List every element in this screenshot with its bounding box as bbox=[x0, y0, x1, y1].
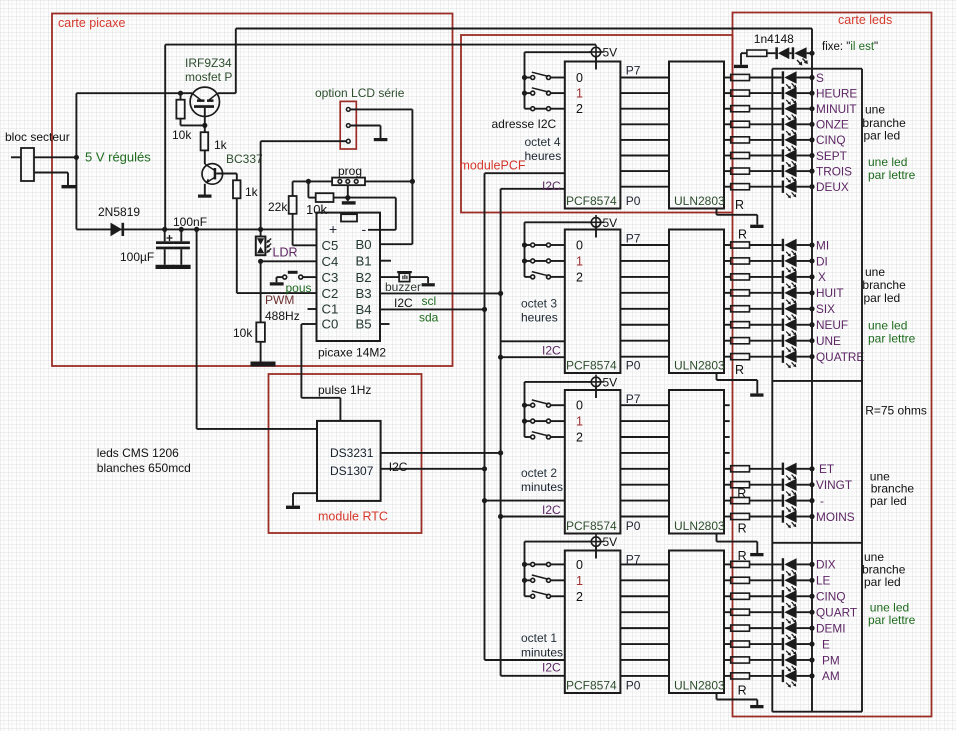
svg-text:P7: P7 bbox=[626, 392, 641, 406]
wire P0 PCF to ULN (module 1) bbox=[620, 186, 669, 188]
svg-text:B0: B0 bbox=[356, 237, 372, 252]
svg-text:minutes: minutes bbox=[521, 646, 563, 660]
wire P4 PCF to ULN (module 1) bbox=[620, 123, 669, 125]
svg-text:MOINS: MOINS bbox=[816, 510, 855, 524]
wire P2 PCF to ULN (module 2) bbox=[620, 324, 669, 326]
node led rail NEUF bbox=[809, 322, 814, 327]
svg-text:1: 1 bbox=[576, 574, 583, 588]
LED SIX bbox=[782, 303, 784, 315]
wire P6 PCF to ULN (module 1) bbox=[620, 92, 669, 94]
svg-text:heures: heures bbox=[521, 311, 558, 325]
svg-text:P0: P0 bbox=[626, 359, 641, 373]
svg-text:5 V régulés: 5 V régulés bbox=[85, 150, 151, 165]
svg-text:-: - bbox=[362, 221, 367, 237]
wire BC337 emitter to ground bbox=[204, 184, 206, 195]
svg-text:CINQ: CINQ bbox=[816, 133, 846, 147]
resistor 1k (base) bbox=[233, 180, 241, 198]
LED PM bbox=[782, 654, 784, 666]
svg-text:ULN2803: ULN2803 bbox=[674, 359, 725, 373]
LED AM bbox=[782, 670, 784, 682]
svg-text:2: 2 bbox=[576, 431, 583, 445]
bloc secteur connector bbox=[11, 156, 21, 158]
wire P3 PCF to ULN (module 2) bbox=[620, 308, 669, 310]
node led rail SIX bbox=[809, 306, 814, 311]
node LDR top bbox=[258, 227, 263, 232]
svg-text:IRF9Z34: IRF9Z34 bbox=[185, 56, 232, 70]
ground (100nF) bbox=[173, 265, 191, 269]
wire P6 PCF to ULN (module 4) bbox=[620, 579, 669, 581]
svg-text:P7: P7 bbox=[626, 232, 641, 246]
svg-text:HEURE: HEURE bbox=[816, 86, 857, 100]
svg-text:B4: B4 bbox=[356, 302, 372, 317]
svg-text:adresse I2C: adresse I2C bbox=[492, 117, 557, 131]
wire C0 to RTC bbox=[301, 323, 316, 325]
resistor R (module 2 HUIT) bbox=[724, 292, 731, 294]
node RTC supply bbox=[194, 227, 199, 232]
wire B0 bbox=[380, 243, 412, 245]
svg-text:carte picaxe: carte picaxe bbox=[58, 16, 125, 30]
node led rail DEMI bbox=[809, 626, 814, 631]
carte picaxe frame bbox=[52, 14, 453, 367]
resistor R (module 4 DIX) bbox=[724, 563, 731, 565]
IC ULN2803 (module 2) bbox=[669, 230, 724, 374]
I2C bus1 (sda) bbox=[484, 173, 486, 660]
svg-text:QUATRE: QUATRE bbox=[816, 350, 864, 364]
IC PCF8574 (module 1) bbox=[565, 62, 621, 209]
svg-text:R: R bbox=[738, 522, 747, 536]
svg-text:0: 0 bbox=[576, 71, 583, 85]
svg-text:S: S bbox=[816, 71, 824, 85]
wire P3 PCF to ULN (module 3) bbox=[620, 468, 669, 470]
svg-text:R: R bbox=[738, 684, 747, 698]
svg-text:LE: LE bbox=[816, 574, 831, 588]
LED VINGT bbox=[782, 479, 784, 491]
node led rail UNE bbox=[809, 338, 814, 343]
address switch 0 (module 1) bbox=[525, 77, 531, 79]
LED QUART bbox=[782, 606, 784, 618]
photoresistor LDR bbox=[260, 141, 262, 236]
svg-text:CINQ: CINQ bbox=[816, 590, 846, 604]
resistor R (module 1 CINQ) bbox=[724, 139, 731, 141]
svg-text:I2C: I2C bbox=[389, 460, 408, 474]
resistor R (module 1 S) bbox=[724, 77, 731, 79]
svg-text:par lettre: par lettre bbox=[868, 168, 916, 182]
svg-text:I2C: I2C bbox=[542, 179, 561, 193]
svg-text:R: R bbox=[737, 487, 746, 501]
svg-text:QUART: QUART bbox=[816, 605, 857, 619]
svg-text:DIX: DIX bbox=[816, 558, 836, 572]
resistor R (module 2 SIX) bbox=[724, 308, 731, 310]
svg-text:picaxe 14M2: picaxe 14M2 bbox=[318, 346, 386, 360]
address switch 0 (module 2) bbox=[525, 244, 531, 246]
node led rail - bbox=[809, 498, 814, 503]
svg-text:buzzer: buzzer bbox=[385, 280, 421, 294]
svg-text:option LCD série: option LCD série bbox=[315, 86, 405, 100]
wire I2C scl in (module 3) bbox=[485, 500, 565, 502]
resistor 22k bbox=[292, 181, 294, 196]
wire prog to B0 riser bbox=[365, 180, 412, 182]
resistor R (module 3 ET) bbox=[724, 468, 731, 470]
resistor R (module 1 HEURE) bbox=[724, 92, 731, 94]
ground (buzzer) bbox=[422, 283, 435, 286]
wire +5V rail (after diode) bbox=[76, 228, 316, 230]
svg-text:une led: une led bbox=[868, 319, 907, 333]
IC U1 picaxe 14M2 bbox=[317, 213, 381, 341]
svg-text:X: X bbox=[818, 270, 826, 284]
wire prog center to ground bbox=[347, 185, 349, 201]
svg-text:DS3231: DS3231 bbox=[330, 446, 374, 460]
IC PCF8574 (module 4) bbox=[565, 551, 621, 694]
wire BC337 base bbox=[216, 173, 237, 175]
svg-text:1k: 1k bbox=[214, 138, 228, 152]
5V bus to address switches (module 2) bbox=[525, 221, 592, 223]
carte leds frame bbox=[733, 13, 932, 717]
wire +5V to modulePCF (upper) bbox=[164, 45, 166, 230]
wire I2C sda in (module 1) bbox=[501, 188, 565, 190]
svg-text:prog: prog bbox=[338, 164, 362, 178]
svg-text:I2C: I2C bbox=[542, 661, 561, 675]
ground (100uF) bbox=[156, 265, 174, 269]
svg-text:une led: une led bbox=[868, 155, 907, 169]
svg-text:LDR: LDR bbox=[273, 246, 298, 260]
LED S bbox=[782, 71, 784, 83]
svg-text:C4: C4 bbox=[322, 254, 339, 269]
svg-text:DI: DI bbox=[816, 254, 828, 268]
wire bloc secteur to ground bbox=[34, 172, 68, 174]
wire P1 PCF to ULN (module 1) bbox=[620, 170, 669, 172]
svg-text:bloc secteur: bloc secteur bbox=[5, 130, 70, 144]
svg-text:5V: 5V bbox=[603, 375, 618, 389]
svg-text:2: 2 bbox=[576, 102, 583, 116]
node 5V regules bbox=[74, 155, 79, 160]
svg-text:0: 0 bbox=[576, 558, 583, 572]
svg-text:2: 2 bbox=[576, 590, 583, 604]
svg-text:5V: 5V bbox=[603, 216, 618, 230]
ground (BC337) bbox=[198, 195, 212, 198]
svg-text:C5: C5 bbox=[322, 238, 339, 253]
wire I2C scl in (module 1) bbox=[485, 172, 565, 174]
wire mosfet drain up bbox=[218, 92, 236, 94]
LED X bbox=[782, 271, 784, 283]
node led rail DIX bbox=[809, 562, 814, 567]
svg-text:par led: par led bbox=[864, 575, 901, 589]
resistor R (module 4 AM) bbox=[724, 675, 731, 677]
svg-text:sda: sda bbox=[419, 311, 439, 325]
wire ULN output stub (module 3 row 2) bbox=[724, 436, 730, 438]
wire P5 PCF to ULN (module 3) bbox=[620, 436, 669, 438]
wire +5V vertical bbox=[75, 93, 77, 229]
svg-text:ULN2803: ULN2803 bbox=[674, 194, 725, 208]
node led rail E bbox=[809, 641, 814, 646]
resistor R (module 4 CINQ) bbox=[724, 595, 731, 597]
wire RTC ground bbox=[293, 492, 317, 494]
wire P0 PCF to ULN (module 4) bbox=[620, 675, 669, 677]
LED CINQ bbox=[782, 134, 784, 146]
svg-text:par led: par led bbox=[864, 129, 901, 143]
svg-text:ULN2803: ULN2803 bbox=[674, 679, 725, 693]
wire P2 PCF to ULN (module 1) bbox=[620, 155, 669, 157]
svg-text:octet 2: octet 2 bbox=[521, 466, 557, 480]
svg-text:C0: C0 bbox=[322, 317, 339, 332]
wire ULN2803 ground (module 2) bbox=[716, 373, 718, 380]
resistor R (module 1 DEUX) bbox=[724, 186, 731, 188]
svg-text:SEPT: SEPT bbox=[816, 149, 847, 163]
node led rail QUART bbox=[809, 610, 814, 615]
address switch 2 (module 1) bbox=[525, 108, 531, 110]
svg-text:heures: heures bbox=[525, 149, 562, 163]
svg-text:10k: 10k bbox=[233, 326, 253, 340]
wire ULN2803 ground (module 4) bbox=[716, 693, 718, 700]
resistor R (module 2 DI) bbox=[724, 260, 731, 262]
modulePCF frame bbox=[461, 35, 733, 213]
address switch 0 (module 4) bbox=[525, 563, 531, 565]
address switch 0 (module 3) bbox=[525, 404, 531, 406]
wire B3 scl to bus2 bbox=[380, 292, 501, 294]
svg-text:1k: 1k bbox=[245, 185, 259, 199]
node led rail CINQ bbox=[809, 594, 814, 599]
resistor R (module 2 QUATRE) bbox=[724, 356, 731, 358]
svg-text:R=75 ohms: R=75 ohms bbox=[865, 404, 927, 418]
svg-text:2N5819: 2N5819 bbox=[98, 205, 140, 219]
svg-text:B1: B1 bbox=[356, 253, 372, 268]
svg-text:module RTC: module RTC bbox=[318, 510, 388, 524]
wire LDR to C4 bbox=[261, 260, 317, 262]
LED QUATRE bbox=[782, 350, 784, 362]
svg-text:par led: par led bbox=[870, 494, 907, 508]
resistor 1k (gate drive) bbox=[201, 132, 209, 150]
5V supply symbol (module 2) bbox=[595, 215, 597, 230]
node led rail PM bbox=[809, 657, 814, 662]
node led rail MOINS bbox=[809, 514, 814, 519]
ground (LCD) bbox=[374, 138, 388, 141]
resistor R (module 2 MI) bbox=[724, 244, 731, 246]
address switch 2 (module 2) bbox=[525, 276, 531, 278]
svg-text:P0: P0 bbox=[626, 519, 641, 533]
svg-text:une: une bbox=[865, 103, 885, 117]
node 100uF bbox=[162, 227, 167, 232]
LED fixe "il est" bbox=[792, 47, 795, 59]
wire P7 PCF to ULN (module 4) bbox=[620, 563, 669, 565]
LED ONZE bbox=[782, 118, 784, 130]
5V bus to address switches (module 1) bbox=[525, 51, 592, 53]
5V bus to address switches (module 3) bbox=[525, 381, 592, 383]
svg-text:DS1307: DS1307 bbox=[330, 464, 374, 478]
node led rail ET bbox=[809, 466, 814, 471]
svg-text:R: R bbox=[738, 228, 747, 242]
svg-text:par led: par led bbox=[864, 291, 901, 305]
node led rail QUATRE bbox=[809, 354, 814, 359]
svg-text:C3: C3 bbox=[322, 270, 339, 285]
node led rail DEUX bbox=[809, 184, 814, 189]
wire P0 PCF to ULN (module 2) bbox=[620, 356, 669, 358]
wire P7 PCF to ULN (module 1) bbox=[620, 77, 669, 79]
svg-text:SIX: SIX bbox=[816, 302, 835, 316]
ground (fixe branch) bbox=[734, 65, 748, 68]
LED - bbox=[782, 494, 784, 506]
pin stub B5 bbox=[380, 323, 390, 325]
node fixe rail bbox=[809, 51, 814, 56]
svg-text:par lettre: par lettre bbox=[868, 613, 916, 627]
LED MI bbox=[782, 239, 784, 251]
led matrix frame left edge bbox=[771, 69, 773, 712]
resistor R (module 1 ONZE) bbox=[724, 123, 731, 125]
LED NEUF bbox=[782, 319, 784, 331]
svg-text:I2C: I2C bbox=[542, 503, 561, 517]
svg-text:PCF8574: PCF8574 bbox=[566, 519, 617, 533]
address switch 1 (module 2) bbox=[525, 260, 531, 262]
svg-text:B3: B3 bbox=[356, 286, 372, 301]
LED MOINS bbox=[782, 510, 784, 522]
ground (module 1 ULN) bbox=[750, 225, 763, 228]
svg-text:-: - bbox=[820, 494, 824, 508]
svg-text:ULN2803: ULN2803 bbox=[674, 519, 725, 533]
ground (prog) bbox=[342, 201, 356, 204]
node led rail CINQ bbox=[809, 137, 814, 142]
resistor 10k (mosfet gate-source) bbox=[180, 93, 182, 100]
wire P7 PCF to ULN (module 2) bbox=[620, 244, 669, 246]
node led rail ONZE bbox=[809, 122, 814, 127]
wire bloc secteur to 5V node bbox=[34, 156, 76, 158]
wire P3 PCF to ULN (module 4) bbox=[620, 627, 669, 629]
node led rail MINUIT bbox=[809, 106, 814, 111]
wire P6 PCF to ULN (module 3) bbox=[620, 420, 669, 422]
wire P1 PCF to ULN (module 4) bbox=[620, 659, 669, 661]
wire P0 PCF to ULN (module 3) bbox=[620, 516, 669, 518]
ground (RTC) bbox=[286, 506, 300, 509]
svg-text:MI: MI bbox=[816, 238, 829, 252]
svg-text:B2: B2 bbox=[356, 270, 372, 285]
IC PCF8574 (module 2) bbox=[565, 230, 621, 374]
transistor IRF9Z34 mosfet P bbox=[190, 87, 219, 116]
resistor R (module 1 TROIS) bbox=[724, 170, 731, 172]
resistor R (module 4 E) bbox=[724, 643, 731, 645]
svg-text:fixe: "il est": fixe: "il est" bbox=[822, 41, 878, 53]
svg-text:R: R bbox=[738, 549, 747, 563]
resistor R (module 2 X) bbox=[724, 276, 731, 278]
LED HUIT bbox=[782, 287, 784, 299]
svg-text:HUIT: HUIT bbox=[816, 286, 844, 300]
svg-text:+: + bbox=[329, 221, 337, 237]
IC PCF8574 (module 3) bbox=[565, 390, 621, 534]
svg-text:ONZE: ONZE bbox=[816, 118, 849, 132]
wire P5 PCF to ULN (module 1) bbox=[620, 108, 669, 110]
LED LE bbox=[782, 574, 784, 586]
svg-text:DEMI: DEMI bbox=[816, 621, 846, 635]
address switch 1 (module 3) bbox=[525, 420, 531, 422]
wire ULN output stub (module 3 row 1) bbox=[724, 420, 730, 422]
wire 22k to C5 bbox=[293, 244, 317, 246]
module RTC frame bbox=[269, 374, 422, 533]
svg-text:PM: PM bbox=[822, 653, 840, 667]
svg-text:R: R bbox=[735, 198, 744, 212]
led matrix frame right edge bbox=[861, 69, 863, 712]
node led rail MI bbox=[809, 242, 814, 247]
ground (module 2 ULN) bbox=[750, 393, 763, 396]
wire 10k to minus pin bbox=[334, 197, 396, 199]
resistor R (module 4 LE) bbox=[724, 579, 731, 581]
led matrix separator 2 bbox=[772, 542, 862, 544]
LED MINUIT bbox=[782, 103, 784, 115]
LED DI bbox=[782, 255, 784, 267]
resistor R (module 4 QUART) bbox=[724, 611, 731, 613]
node led rail S bbox=[809, 75, 814, 80]
wire switched +V to led rail (top) bbox=[236, 28, 812, 30]
wire RTC sda bbox=[381, 468, 485, 470]
wire P5 PCF to ULN (module 2) bbox=[620, 276, 669, 278]
5V supply symbol (module 1) bbox=[595, 45, 597, 60]
svg-text:VINGT: VINGT bbox=[816, 478, 852, 492]
address switch 2 (module 3) bbox=[525, 436, 531, 438]
I2C bus2 (scl) bbox=[500, 189, 502, 676]
svg-text:NEUF: NEUF bbox=[816, 318, 848, 332]
led matrix frame bottom bbox=[772, 711, 862, 713]
svg-text:MINUIT: MINUIT bbox=[816, 102, 857, 116]
resistor R (module 2 UNE) bbox=[724, 340, 731, 342]
svg-text:octet 3: octet 3 bbox=[521, 297, 557, 311]
svg-text:1: 1 bbox=[576, 87, 583, 101]
wire ULN output stub (module 3 row 0) bbox=[724, 404, 730, 406]
led anode rail bbox=[811, 29, 813, 712]
wire I2C sda in (module 4) bbox=[501, 675, 565, 677]
5V supply symbol (module 3) bbox=[595, 375, 597, 390]
resistor R (module 4 PM) bbox=[724, 659, 731, 661]
svg-text:blanches 650mcd: blanches 650mcd bbox=[97, 461, 191, 475]
svg-text:I2C: I2C bbox=[542, 344, 561, 358]
svg-text:scl: scl bbox=[422, 294, 437, 308]
svg-text:E: E bbox=[822, 637, 830, 651]
svg-text:1: 1 bbox=[576, 415, 583, 429]
node led rail SEPT bbox=[809, 153, 814, 158]
node led rail VINGT bbox=[809, 482, 814, 487]
svg-text:pulse 1Hz: pulse 1Hz bbox=[318, 383, 371, 397]
resistor R (module 3 MOINS) bbox=[724, 516, 731, 518]
resistor R (fixe) bbox=[747, 50, 767, 56]
wire P2 PCF to ULN (module 3) bbox=[620, 484, 669, 486]
wire LCD pin3 to +5V bbox=[261, 140, 347, 142]
wire base 1k to C2 bbox=[236, 198, 238, 293]
push button pous bbox=[303, 276, 317, 278]
wire I2C scl in (module 2) bbox=[501, 340, 565, 342]
node led rail HEURE bbox=[809, 91, 814, 96]
wire P5 PCF to ULN (module 4) bbox=[620, 595, 669, 597]
LED UNE bbox=[782, 335, 784, 347]
svg-text:carte leds: carte leds bbox=[838, 13, 892, 27]
svg-text:100µF: 100µF bbox=[120, 250, 154, 264]
svg-text:0: 0 bbox=[576, 239, 583, 253]
resistor R (module 2 NEUF) bbox=[724, 324, 731, 326]
svg-text:C1: C1 bbox=[322, 302, 339, 317]
node gate/1k/10k bbox=[202, 123, 207, 128]
svg-text:B5: B5 bbox=[356, 317, 372, 332]
pin stub B1 bbox=[380, 260, 391, 262]
wire P4 PCF to ULN (module 2) bbox=[620, 292, 669, 294]
wire LCD pin2 to ground bbox=[350, 125, 380, 127]
node led rail AM bbox=[809, 673, 814, 678]
pin stub C1 bbox=[308, 308, 317, 310]
wire P1 PCF to ULN (module 3) bbox=[620, 500, 669, 502]
wire +5V to mosfet source bbox=[76, 92, 192, 94]
svg-text:PWM: PWM bbox=[265, 293, 294, 307]
svg-text:PCF8574: PCF8574 bbox=[566, 194, 617, 208]
address switch 1 (module 4) bbox=[525, 579, 531, 581]
svg-text:R: R bbox=[735, 363, 744, 377]
resistor R (module 3 -) bbox=[724, 500, 731, 502]
resistor R (module 3 VINGT) bbox=[724, 484, 731, 486]
LED ET bbox=[782, 463, 784, 475]
wire LCD pin1 to B0 bbox=[350, 108, 412, 110]
node LDR bottom / C4 bbox=[258, 259, 263, 264]
ground (module 4 ULN) bbox=[750, 705, 763, 708]
